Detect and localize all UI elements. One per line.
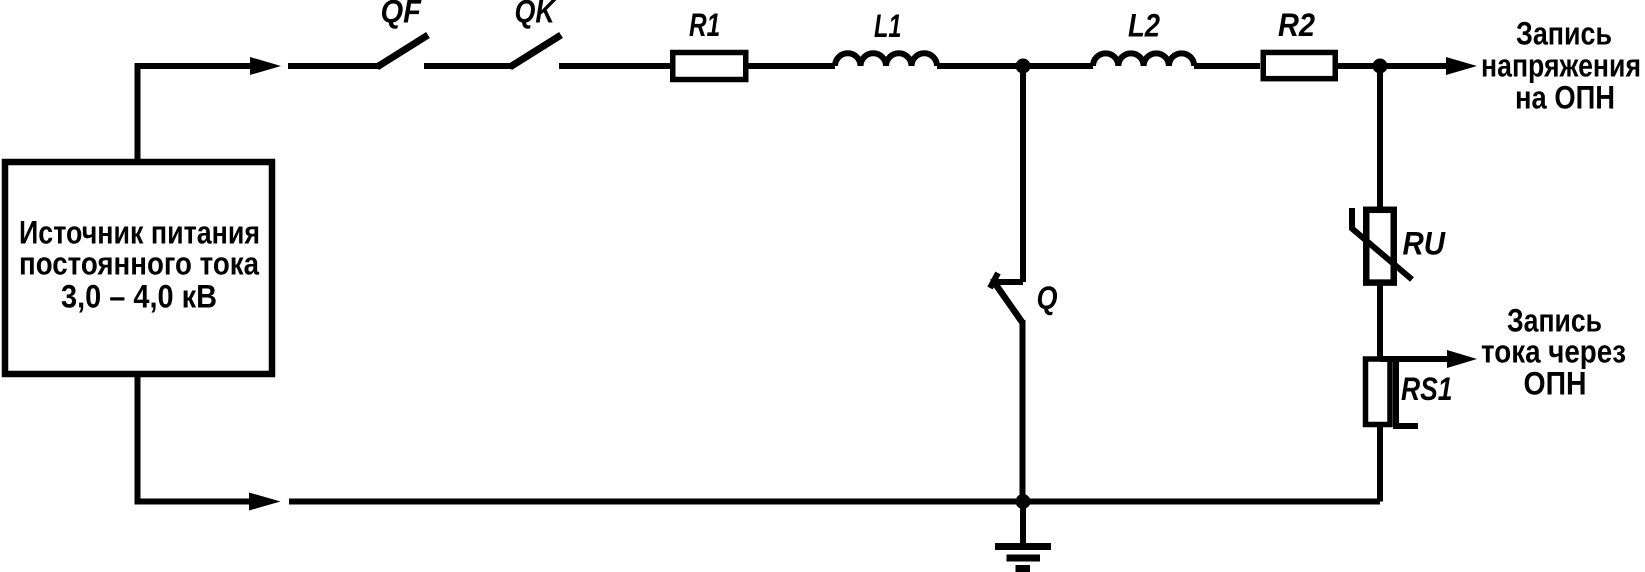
- wire RU to RS1: [1377, 284, 1383, 358]
- svg-text:Запись: Запись: [1516, 15, 1612, 51]
- switch QF blade: [377, 35, 428, 67]
- arrow head current record: [1447, 350, 1477, 368]
- arrow line current record: [1380, 356, 1448, 362]
- svg-text:на ОПН: на ОПН: [1515, 80, 1615, 116]
- svg-text:QK: QK: [515, 0, 558, 30]
- switch QK blade: [510, 35, 561, 67]
- svg-text:тока через: тока через: [1481, 334, 1626, 370]
- wire between QF and QK: [424, 63, 514, 69]
- svg-text:ОПН: ОПН: [1524, 366, 1587, 402]
- node junction dot top-right: [1373, 59, 1388, 74]
- wire node down to switch Q: [1020, 66, 1026, 282]
- power source box: [5, 162, 272, 374]
- arrow bottom-left: [249, 493, 281, 511]
- node junction dot top-middle: [1016, 59, 1031, 74]
- wire R2 to arrow through node: [1338, 63, 1447, 69]
- svg-text:RU: RU: [1403, 226, 1446, 262]
- switch Q blade: [994, 282, 1022, 322]
- wire L1 to L2 through node: [937, 63, 1093, 69]
- wire top-left from source box up and right: [138, 66, 251, 162]
- ground bar 1: [995, 543, 1051, 550]
- varistor RU body: [1366, 210, 1394, 283]
- shunt resistor RS1 body: [1366, 359, 1391, 425]
- svg-text:напряжения: напряжения: [1481, 48, 1641, 84]
- svg-text:Q: Q: [1037, 280, 1058, 316]
- switch Q contact stub: [991, 279, 1024, 285]
- svg-text:RS1: RS1: [1401, 371, 1453, 407]
- inductor L1: [835, 53, 937, 66]
- resistor R1: [673, 53, 746, 80]
- wire before QF: [288, 63, 381, 69]
- svg-text:R1: R1: [689, 7, 720, 43]
- wire QK to R1: [559, 63, 670, 69]
- switch Q contact tick: [990, 273, 998, 288]
- wire RS1 down to bottom wire: [1377, 425, 1383, 502]
- svg-text:3,0 – 4,0 кВ: 3,0 – 4,0 кВ: [61, 279, 217, 315]
- inductor L2: [1093, 53, 1194, 66]
- node junction dot bottom: [1016, 494, 1031, 509]
- wire switch Q to bottom wire: [1020, 320, 1026, 502]
- ground stub: [1020, 502, 1026, 544]
- ground bar 2: [1007, 555, 1041, 562]
- wire R1 to L1: [748, 63, 835, 69]
- wire bottom-left from source box down and right: [138, 374, 250, 502]
- svg-text:L2: L2: [1128, 8, 1160, 44]
- varistor RU diagonal stroke: [1352, 208, 1412, 280]
- svg-text:QF: QF: [381, 0, 423, 30]
- svg-text:постоянного тока: постоянного тока: [19, 246, 259, 282]
- ground bar 3: [1016, 565, 1031, 572]
- svg-text:L1: L1: [874, 8, 902, 44]
- resistor R2: [1263, 52, 1335, 78]
- svg-text:R2: R2: [1278, 7, 1315, 43]
- wire node down to RU: [1377, 66, 1383, 207]
- arrow top-left: [250, 57, 281, 75]
- RS1 tap bracket: [1396, 359, 1418, 426]
- bottom wire: [289, 499, 1380, 505]
- arrow top-right to voltage record: [1446, 57, 1477, 75]
- wire L2 to R2: [1194, 63, 1260, 69]
